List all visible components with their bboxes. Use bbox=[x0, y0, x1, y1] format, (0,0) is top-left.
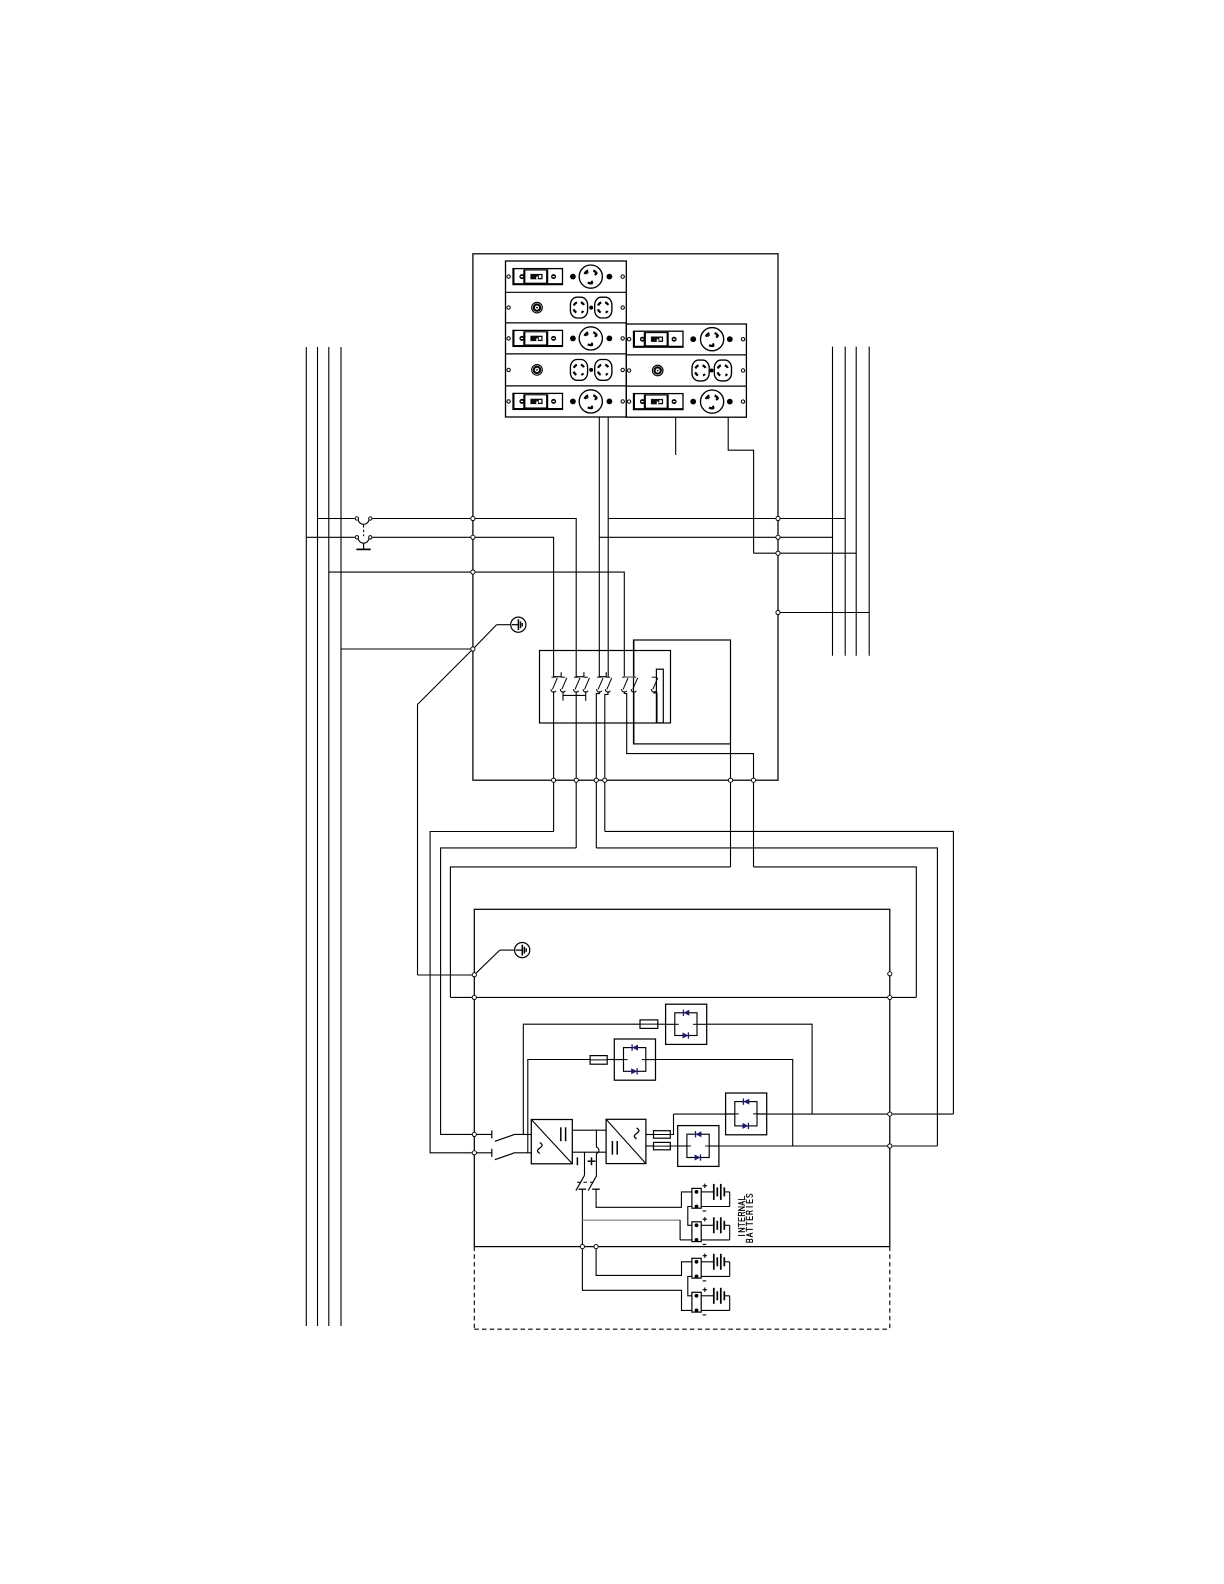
left panel row 3 mounting screw bbox=[507, 337, 510, 340]
breaker pole 3a bbox=[597, 677, 603, 692]
transfer switch box 2 bbox=[634, 640, 731, 744]
input switch SW2 fixed contact bbox=[491, 1149, 493, 1157]
circular connector P7 bbox=[652, 365, 663, 376]
DC negative rail down bbox=[584, 1152, 586, 1175]
wire route W1 to rectifier input 2 bbox=[430, 832, 553, 1153]
right bus line R1 bbox=[832, 347, 834, 656]
wire pole 4a output jog bbox=[624, 691, 753, 867]
node on enclosure left edge bbox=[471, 570, 475, 574]
left panel row 5 mounting screw bbox=[621, 400, 624, 403]
left panel row 5 contact dot bbox=[570, 399, 576, 405]
circuit breaker CB5 bbox=[513, 393, 563, 409]
neutral bus wire bbox=[450, 996, 916, 998]
wire route W3 to rectifier input 1 bbox=[441, 848, 577, 1135]
wire panel output C to bus R3 bbox=[754, 552, 857, 554]
wire SCR block Q1 output bbox=[707, 1024, 812, 1114]
DC link positive wire bbox=[572, 1129, 606, 1131]
left panel row 2 mounting screw bbox=[621, 306, 624, 309]
battery positive feed wire bbox=[596, 1189, 692, 1207]
right panel row divider bbox=[626, 385, 746, 387]
pole pair 2 tie bar bbox=[576, 672, 584, 677]
wire tap to fuse FA bbox=[523, 1024, 640, 1134]
node on UPS box left edge bbox=[472, 1132, 476, 1136]
left panel row 1 mounting screw bbox=[507, 275, 510, 278]
left outlet panel plate bbox=[506, 261, 627, 417]
node on enclosure bottom edge bbox=[728, 778, 732, 782]
wire UPS input 1 bbox=[474, 1133, 492, 1135]
left panel row 2 center screw dot bbox=[589, 306, 593, 310]
feeder wire phase 2 to breaker bbox=[372, 537, 553, 677]
left panel row divider bbox=[506, 291, 627, 293]
right panel row mounting screw bbox=[627, 369, 630, 372]
node on UPS box left edge bbox=[472, 1151, 476, 1155]
ground symbol G2 bbox=[515, 943, 530, 958]
disconnect contact circle bbox=[355, 536, 358, 539]
left panel row divider bbox=[506, 322, 627, 324]
node on enclosure left edge bbox=[471, 516, 475, 520]
pole pair 3 tie bar bbox=[599, 672, 606, 677]
disconnect contact circle bbox=[369, 536, 372, 539]
node on UPS box bottom edge bbox=[594, 1245, 598, 1249]
left bus line L2 bbox=[317, 347, 319, 1326]
left panel row 3 contact dot bbox=[607, 336, 613, 342]
ground vertical wire bbox=[417, 704, 419, 975]
inverter converter U2 bbox=[606, 1119, 646, 1163]
left panel row 3 mounting screw bbox=[621, 337, 624, 340]
SCR block Q3 bbox=[726, 1093, 767, 1135]
node on UPS box right edge bbox=[888, 972, 892, 976]
wire from left panel output B bbox=[607, 417, 609, 677]
internal battery BT2 bbox=[692, 1217, 730, 1244]
wire fuse FA to SCR block Q1 bbox=[658, 1023, 666, 1025]
duplex receptacle J2b bbox=[595, 297, 612, 318]
circular connector P4 bbox=[532, 365, 543, 376]
battery breaker contact bar 2 bbox=[592, 1188, 600, 1190]
wire SCR block Q2 output bbox=[656, 1060, 793, 1147]
wire pole 3a output jog bbox=[596, 691, 599, 848]
wire from transfer box corner down bbox=[730, 744, 732, 867]
node on enclosure bottom edge bbox=[594, 778, 598, 782]
left panel row 1 contact dot bbox=[570, 274, 576, 280]
right panel row contact dot bbox=[727, 399, 733, 405]
UPS unit cabinet box bbox=[474, 909, 890, 1246]
right panel center screw dot bbox=[710, 369, 714, 373]
feeder wire phase 1 segment bbox=[318, 518, 355, 520]
node on enclosure bottom edge bbox=[603, 778, 607, 782]
twist-lock receptacle J8 bbox=[701, 390, 724, 413]
wire fuse FB to SCR block Q2 bbox=[607, 1059, 614, 1061]
wire stub from right panel bbox=[675, 417, 677, 455]
wire inverter out 2 to fuse F2 bbox=[646, 1145, 654, 1147]
battery breaker link dash bbox=[577, 1181, 594, 1183]
wire pole 3b output jog bbox=[605, 691, 608, 831]
disconnect mechanical link dashed bbox=[363, 525, 365, 536]
node on enclosure left edge bbox=[471, 535, 475, 539]
node on enclosure right edge bbox=[776, 551, 780, 555]
left bus line L3 bbox=[328, 347, 330, 1326]
ground lead wire bbox=[500, 949, 515, 951]
right bus line R2 bbox=[844, 347, 846, 656]
right panel row mounting screw bbox=[627, 338, 630, 341]
breaker cabinet box 1 bbox=[540, 651, 671, 724]
wire fuse F1 riser to bypass bus bbox=[670, 1114, 673, 1134]
right panel row mounting screw bbox=[627, 400, 630, 403]
left panel row 5 mounting screw bbox=[507, 400, 510, 403]
ground lead wire bbox=[497, 624, 511, 626]
circuit breaker CB6 bbox=[634, 331, 684, 347]
label plus bbox=[588, 1157, 596, 1165]
rectifier converter U1 bbox=[531, 1120, 572, 1164]
duplex receptacle J4b bbox=[595, 360, 612, 381]
node on UPS box left edge bbox=[472, 995, 476, 999]
node on enclosure left edge bbox=[471, 647, 475, 651]
label minus bbox=[576, 1157, 578, 1165]
wire pole 4b output to box bottom bbox=[633, 691, 635, 744]
DC rail hop over negative wire bbox=[596, 1147, 599, 1153]
battery negative gray tie wire bbox=[582, 1219, 680, 1221]
ground diagonal wire bbox=[473, 625, 497, 649]
internal battery series link bbox=[688, 1207, 692, 1226]
node on enclosure bottom edge bbox=[574, 778, 578, 782]
wire from left panel output A bbox=[598, 417, 600, 677]
left panel row 5 contact dot bbox=[607, 399, 613, 405]
feeder wire neutral to breaker bbox=[329, 572, 625, 677]
left bus line L4 bbox=[340, 347, 342, 1326]
breaker pole 4a bbox=[622, 677, 628, 692]
fuse F2 bbox=[654, 1142, 671, 1149]
UPS output enclosure box bbox=[473, 254, 778, 780]
disconnect pole 1 arc bbox=[358, 520, 369, 524]
right panel row mounting screw bbox=[741, 338, 744, 341]
node on enclosure right edge bbox=[776, 535, 780, 539]
fuse F1 bbox=[654, 1131, 671, 1139]
DC positive rail down bbox=[595, 1130, 597, 1147]
wire pole 1b stub bbox=[562, 695, 564, 700]
circuit breaker CB1 bbox=[513, 269, 563, 285]
right outlet panel plate bbox=[626, 324, 746, 417]
battery breaker blade 1 bbox=[576, 1175, 585, 1190]
node on UPS box bottom edge bbox=[580, 1245, 584, 1249]
external battery cabinet dashed box bbox=[474, 1247, 890, 1330]
disconnect chassis bar bbox=[356, 548, 370, 550]
right panel row mounting screw bbox=[741, 400, 744, 403]
left panel row 4 mounting screw bbox=[621, 368, 624, 371]
right panel row contact dot bbox=[727, 336, 733, 342]
input switch SW2 blade bbox=[495, 1153, 514, 1160]
twist-lock receptacle J1 bbox=[579, 265, 602, 288]
pole pair 4 tie bar gray bbox=[624, 676, 634, 678]
internal battery 2 return wire bbox=[680, 1239, 692, 1241]
input switch SW1 fixed contact bbox=[491, 1130, 493, 1138]
fuse FB bbox=[590, 1056, 607, 1065]
breaker pole 2b bbox=[583, 677, 589, 692]
left panel row divider bbox=[506, 385, 627, 387]
left bus line L1 bbox=[305, 347, 307, 1326]
external battery BT3 bbox=[692, 1254, 730, 1281]
twist-lock receptacle J5 bbox=[579, 390, 602, 413]
wire route W2 to bypass bus bbox=[605, 831, 954, 1114]
circular connector P2 bbox=[532, 302, 543, 313]
node on enclosure right edge bbox=[776, 516, 780, 520]
output bus wire bbox=[670, 1145, 937, 1147]
wire pole 2b stub bbox=[585, 691, 587, 701]
wire pole 1a output bbox=[553, 691, 555, 831]
node on enclosure bottom edge bbox=[552, 778, 556, 782]
wire bus L4 to enclosure ground node bbox=[341, 648, 473, 650]
ground symbol G1 bbox=[511, 617, 526, 632]
external battery series link bbox=[688, 1276, 692, 1295]
SCR block Q4 bbox=[678, 1126, 719, 1167]
wire panel output A to bus R1 bbox=[599, 536, 832, 538]
duplex receptacle J7b bbox=[714, 360, 731, 381]
circuit breaker CB3 bbox=[513, 330, 563, 346]
DC positive rail down 2 bbox=[595, 1153, 597, 1175]
label INTERNAL BATTERIES bbox=[738, 1196, 744, 1235]
external battery negative return bbox=[582, 1247, 692, 1311]
feeder wire phase 1 to breaker bbox=[372, 519, 576, 678]
node on UPS box left edge bbox=[472, 973, 476, 977]
ground bus horizontal bbox=[418, 974, 475, 976]
node on enclosure right edge bbox=[776, 610, 780, 614]
switch pole 5 output bbox=[654, 691, 657, 723]
SCR block Q1 bbox=[666, 1004, 707, 1044]
breaker pole 4b input from box top bbox=[633, 640, 635, 677]
input switch SW1 blade bbox=[495, 1135, 514, 1142]
pole pair 1 tie bar bbox=[554, 672, 562, 677]
left panel row 4 mounting screw bbox=[507, 368, 510, 371]
wire pole 1b output tie bbox=[563, 691, 586, 695]
right panel row divider bbox=[626, 354, 746, 356]
twist-lock receptacle J6 bbox=[701, 328, 724, 351]
fuse FA bbox=[640, 1020, 658, 1029]
bypass bus wire bbox=[674, 1113, 954, 1115]
circuit breaker CB8 bbox=[634, 394, 684, 410]
breaker pole 2a bbox=[574, 677, 580, 692]
external battery positive feed bbox=[596, 1247, 692, 1276]
right bus line R4 bbox=[868, 347, 870, 656]
right panel row contact dot bbox=[690, 399, 696, 405]
left panel row 2 mounting screw bbox=[507, 306, 510, 309]
disconnect contact circle bbox=[369, 517, 372, 520]
left panel row 4 center screw dot bbox=[589, 368, 593, 372]
DC link negative wire bbox=[572, 1151, 606, 1153]
wire panel output B to bus R2 bbox=[608, 518, 845, 520]
breaker pole 3b bbox=[605, 677, 611, 692]
external battery BT4 bbox=[692, 1288, 730, 1315]
left panel row 1 contact dot bbox=[607, 274, 613, 280]
breaker pole 1a bbox=[551, 677, 557, 692]
duplex receptacle J4a bbox=[570, 360, 587, 381]
twist-lock receptacle J3 bbox=[579, 327, 602, 350]
left panel row 1 mounting screw bbox=[621, 275, 624, 278]
disconnect chassis stem bbox=[363, 544, 365, 549]
wire inverter out 1 to fuse F1 bbox=[646, 1134, 654, 1136]
wire to rectifier input 2 bbox=[514, 1152, 532, 1154]
right panel row mounting screw bbox=[741, 369, 744, 372]
disconnect contact circle bbox=[355, 517, 358, 520]
wire enclosure to bus R4 bbox=[778, 612, 869, 614]
wire route W4 to output bus bbox=[596, 848, 937, 1146]
node on UPS box right edge bbox=[888, 1112, 892, 1116]
wire route W6 neutral right bbox=[754, 867, 917, 998]
feeder wire phase 2 segment bbox=[306, 536, 355, 538]
battery negative gray riser bbox=[679, 1220, 681, 1240]
switch handle rectangle bbox=[656, 669, 663, 723]
battery breaker blade 2 bbox=[588, 1175, 597, 1190]
breaker pole 4b bbox=[631, 677, 637, 692]
battery negative wire down bbox=[581, 1189, 583, 1246]
node on UPS box right edge bbox=[888, 1144, 892, 1148]
wire UPS input 2 bbox=[474, 1152, 492, 1154]
breaker pole 1b bbox=[560, 677, 566, 692]
wire from right panel output C bbox=[728, 417, 753, 553]
right bus line R3 bbox=[855, 347, 857, 656]
ground diagonal wire continuation bbox=[418, 649, 473, 704]
SCR block Q2 bbox=[614, 1039, 655, 1080]
ground diagonal wire bbox=[474, 950, 500, 975]
left panel row divider bbox=[506, 353, 627, 355]
wire to rectifier input 1 bbox=[514, 1133, 532, 1135]
wire pole 2a output bbox=[575, 691, 577, 848]
switch pole 5 bbox=[651, 677, 657, 692]
duplex receptacle J2a bbox=[570, 297, 587, 318]
node on UPS box right edge bbox=[888, 995, 892, 999]
left panel row 3 contact dot bbox=[570, 336, 576, 342]
node on enclosure bottom edge bbox=[751, 778, 755, 782]
right panel row contact dot bbox=[690, 336, 696, 342]
wire route W5 neutral left bbox=[450, 867, 730, 998]
internal battery BT1 bbox=[692, 1184, 730, 1211]
duplex receptacle J7a bbox=[692, 360, 709, 381]
battery breaker contact bar 1 bbox=[579, 1188, 587, 1190]
disconnect pole 2 arc bbox=[358, 539, 369, 543]
wire tap to fuse FB bbox=[528, 1060, 590, 1153]
